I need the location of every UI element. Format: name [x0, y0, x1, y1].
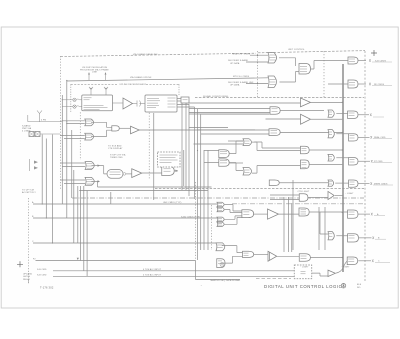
svg-text:CTE LIGHT: CTE LIGHT — [298, 191, 310, 193]
svg-text:VIA S-BAND DATA LINK: VIA S-BAND DATA LINK — [133, 53, 158, 56]
svg-text:S-BD CMDS (TYP): S-BD CMDS (TYP) — [181, 216, 200, 218]
svg-text:DECODER S-BAND UHF: DECODER S-BAND UHF — [228, 81, 254, 84]
svg-text:UNIT CONTROL: UNIT CONTROL — [288, 49, 305, 51]
svg-text:RELAY: RELAY — [23, 278, 31, 281]
svg-text:CTE DISPLAY: CTE DISPLAY — [108, 147, 123, 150]
svg-text:UPLINK RECEIVER ASSY: UPLINK RECEIVER ASSY — [120, 83, 147, 86]
svg-text:S-B CMD: S-B CMD — [37, 269, 47, 271]
svg-text:~ LIGHT: ~ LIGHT — [345, 193, 354, 195]
svg-text:SIGNAL CONDITIONING: SIGNAL CONDITIONING — [203, 95, 229, 98]
svg-text:T-176 302: T-176 302 — [40, 286, 54, 290]
svg-text:ELE: ELE — [357, 284, 362, 286]
svg-text:UP DATA: UP DATA — [230, 62, 240, 65]
svg-text:VIA S-BAND UPLINK: VIA S-BAND UPLINK — [130, 76, 152, 79]
svg-text:TIMER CMD: TIMER CMD — [110, 157, 123, 159]
svg-text:LINE: LINE — [92, 71, 98, 73]
svg-text:TO SCS AND: TO SCS AND — [108, 145, 122, 148]
svg-text:MASTER SEQ DATA SIGNAL: MASTER SEQ DATA SIGNAL — [211, 279, 241, 282]
svg-text:4 FM: 4 FM — [41, 120, 46, 122]
svg-text:S-B CMD: S-B CMD — [37, 275, 47, 277]
svg-text:~ LIGHT: ~ LIGHT — [341, 267, 350, 269]
svg-text:LATCH: LATCH — [23, 275, 31, 278]
svg-text:DECODER S-BAND: DECODER S-BAND — [228, 59, 249, 62]
svg-text:DIGITAL UNIT CONTROL LOGIC: DIGITAL UNIT CONTROL LOGIC — [264, 284, 342, 289]
svg-text:MTU S-L CMDS: MTU S-L CMDS — [233, 76, 250, 78]
svg-text:4 LINES: 4 LINES — [22, 131, 31, 133]
svg-text:4 TLM A/C INPUT: 4 TLM A/C INPUT — [143, 274, 162, 277]
svg-text:ACCEPT RLY: ACCEPT RLY — [22, 191, 36, 194]
svg-text:UP DATA: UP DATA — [230, 83, 240, 86]
svg-text:UHF CMDS (TYP): UHF CMDS (TYP) — [163, 202, 182, 204]
svg-text:UPDATA: UPDATA — [23, 273, 32, 276]
svg-text:NO.: NO. — [357, 287, 361, 289]
svg-text:~ LIGHT: ~ LIGHT — [300, 267, 309, 269]
svg-text:REAL UHF CMDS: REAL UHF CMDS — [232, 53, 251, 56]
svg-text:4 TLM A/C INPUT: 4 TLM A/C INPUT — [143, 268, 162, 271]
